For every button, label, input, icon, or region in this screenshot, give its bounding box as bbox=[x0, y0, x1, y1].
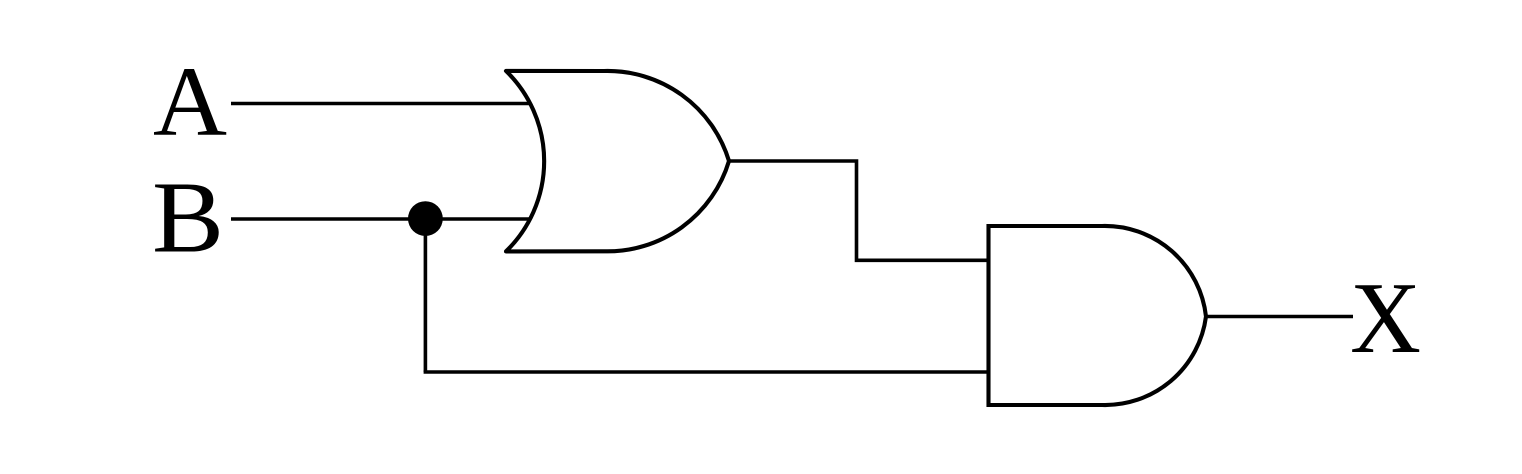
or-gate U1 bbox=[506, 71, 729, 252]
and-gate U2 bbox=[989, 226, 1207, 405]
wire AND output to X bbox=[1206, 315, 1353, 319]
svg-text:A: A bbox=[153, 46, 227, 157]
svg-text:X: X bbox=[1350, 262, 1421, 375]
svg-text:B: B bbox=[152, 161, 224, 274]
wire junction drop from B bbox=[424, 219, 428, 372]
junction dot on node B bbox=[408, 201, 443, 236]
wire input A bbox=[231, 102, 556, 106]
wire input B bbox=[231, 217, 556, 221]
wire OR output to AND top input bbox=[729, 161, 990, 260]
wire bottom run to AND gate bbox=[424, 370, 990, 374]
